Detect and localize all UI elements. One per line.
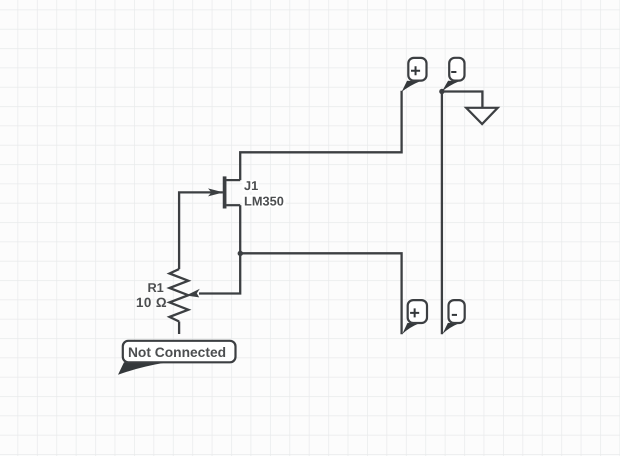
not-connected flag tail xyxy=(118,362,166,375)
terminal - top minus sign xyxy=(451,71,456,73)
terminal + top callout tail xyxy=(402,81,420,92)
wire top - node to bottom - terminal xyxy=(441,92,443,335)
transistor J1 gate arrowhead xyxy=(208,188,224,196)
resistor bottom lead xyxy=(178,322,180,335)
not-connected flag box xyxy=(123,341,236,363)
svg-text:J1: J1 xyxy=(244,178,258,193)
terminal - bottom callout box xyxy=(449,300,465,323)
terminal - top callout box xyxy=(449,58,464,81)
terminal - bottom callout tail xyxy=(443,323,459,334)
resistor R1 zigzag body xyxy=(170,269,189,321)
svg-text:10 Ω: 10 Ω xyxy=(136,295,167,310)
svg-text:Not Connected: Not Connected xyxy=(128,345,226,360)
terminal - bottom minus sign xyxy=(452,314,457,316)
ground symbol xyxy=(466,108,498,124)
junction dot at source node xyxy=(238,251,243,256)
label LM350 background xyxy=(243,195,286,207)
terminal + bottom plus sign xyxy=(410,308,419,317)
label J1 background xyxy=(243,180,259,192)
wire top - node to ground xyxy=(442,92,483,108)
potentiometer wiper arrowhead xyxy=(186,289,200,298)
wire junction to bottom + terminal xyxy=(240,253,401,334)
wire gate to resistor top xyxy=(179,192,223,269)
wire junction down to potentiometer wiper xyxy=(199,253,240,293)
terminal + top plus sign xyxy=(411,66,420,75)
transistor J1 gate bar xyxy=(223,176,227,208)
wire source pin down to junction xyxy=(239,205,241,253)
transistor J1 drain pin xyxy=(226,179,240,181)
terminal + top callout box xyxy=(408,58,426,81)
svg-text:LM350: LM350 xyxy=(244,194,284,209)
terminal + bottom callout box xyxy=(408,300,427,323)
terminal + bottom callout tail xyxy=(402,323,419,334)
wire drain to top + terminal xyxy=(240,91,401,180)
junction dot at top - node xyxy=(439,89,444,94)
terminal - top callout tail xyxy=(442,81,459,92)
svg-text:R1: R1 xyxy=(147,280,163,295)
transistor J1 source pin xyxy=(226,204,240,206)
